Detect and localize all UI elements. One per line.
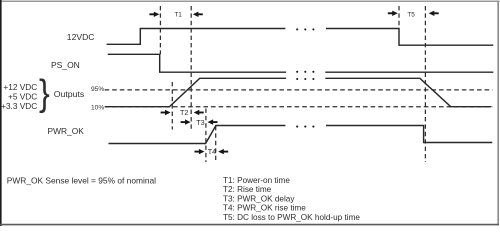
svg-text:PS_ON: PS_ON — [51, 60, 80, 70]
svg-text:+12 VDC: +12 VDC — [3, 82, 37, 92]
svg-text:10%: 10% — [91, 104, 104, 111]
svg-text:PWR_OK: PWR_OK — [48, 126, 85, 136]
svg-text:}: } — [39, 72, 50, 113]
svg-text:T4: PWR_OK rise time: T4: PWR_OK rise time — [223, 204, 306, 213]
svg-text:12VDC: 12VDC — [67, 32, 95, 42]
svg-text:PWR_OK Sense level = 95% of no: PWR_OK Sense level = 95% of nominal — [7, 176, 156, 186]
svg-text:T2: Rise time: T2: Rise time — [223, 185, 272, 194]
svg-text:T5: T5 — [407, 11, 415, 18]
svg-text:T3: T3 — [196, 118, 204, 127]
svg-text:95%: 95% — [91, 86, 104, 93]
svg-text:T3: PWR_OK delay: T3: PWR_OK delay — [223, 194, 295, 203]
svg-text:T4: T4 — [208, 147, 216, 156]
svg-text:+3.3 VDC: +3.3 VDC — [1, 101, 37, 111]
svg-text:T1: Power-on time: T1: Power-on time — [223, 176, 290, 185]
svg-text:T2: T2 — [180, 108, 188, 117]
svg-text:T1: T1 — [174, 12, 182, 19]
svg-text:T5: DC loss to PWR_OK hold-up: T5: DC loss to PWR_OK hold-up time — [223, 213, 360, 222]
svg-text:Outputs: Outputs — [54, 89, 85, 99]
svg-text:+5 VDC: +5 VDC — [8, 91, 37, 101]
